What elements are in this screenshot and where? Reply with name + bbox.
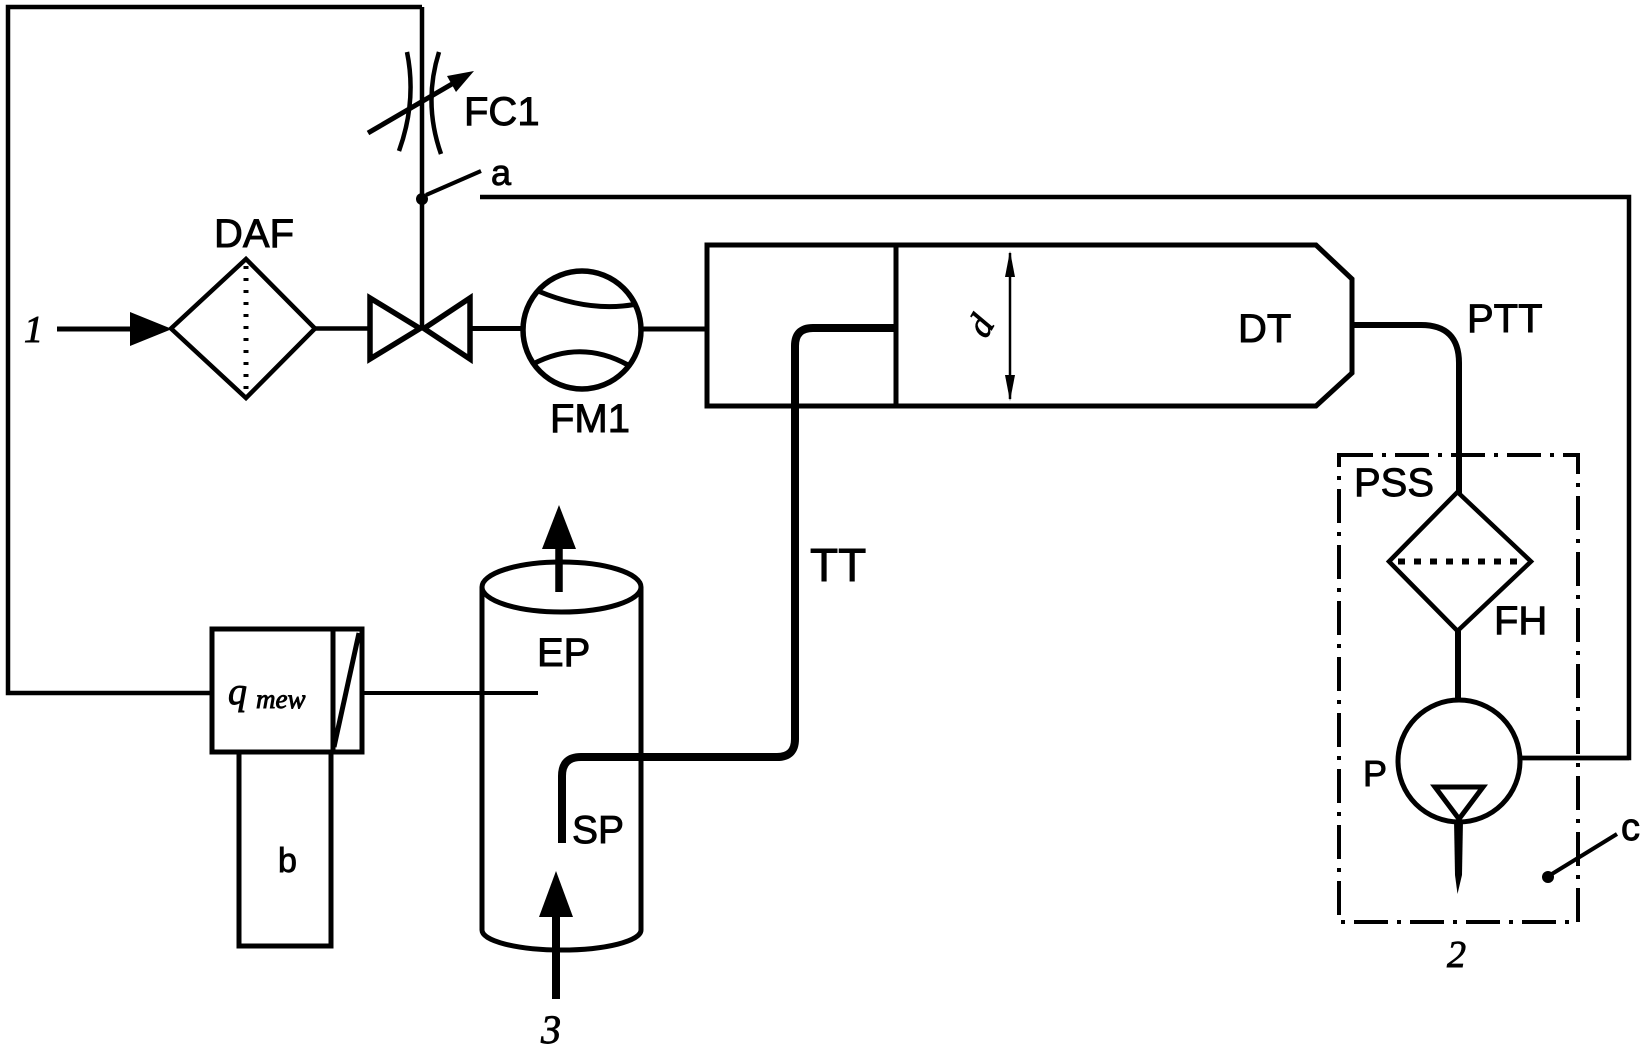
pump P outlet taper bbox=[1454, 820, 1463, 894]
wire inlet 1 bbox=[57, 327, 136, 332]
svg-text:c: c bbox=[1621, 807, 1640, 849]
pump P triangle bbox=[1435, 787, 1483, 819]
svg-text:a: a bbox=[491, 152, 512, 193]
svg-text:d: d bbox=[958, 307, 1002, 343]
box PSS (dash-dot) bbox=[1339, 455, 1578, 922]
svg-text:FH: FH bbox=[1494, 599, 1547, 643]
wire FM1 to tank DT bbox=[641, 327, 707, 332]
svg-text:SP: SP bbox=[572, 809, 624, 852]
tank DT outline bbox=[707, 245, 1352, 406]
svg-text:b: b bbox=[278, 842, 297, 880]
node a bbox=[416, 193, 428, 205]
filter DAF (diamond) bbox=[171, 259, 315, 398]
dotted divider of DAF bbox=[244, 266, 249, 392]
pipe TT (tank to sample point SP) bbox=[562, 328, 896, 843]
dimension d line bbox=[1009, 253, 1012, 399]
svg-text:DAF: DAF bbox=[214, 212, 294, 256]
svg-text:FC1: FC1 bbox=[464, 90, 540, 134]
svg-text:1: 1 bbox=[24, 309, 43, 351]
wire DAF to valve bbox=[315, 326, 370, 331]
arrow inlet 1 bbox=[130, 312, 172, 346]
svg-text:q: q bbox=[228, 671, 247, 713]
wire valve to FM1 bbox=[468, 326, 524, 331]
arrow EP vent (up) bbox=[542, 505, 576, 549]
filter FH (diamond) bbox=[1389, 492, 1531, 631]
svg-text:PSS: PSS bbox=[1354, 461, 1434, 505]
wire FC1 branch vertical bbox=[420, 7, 425, 330]
flow meter FM1 bbox=[523, 271, 641, 389]
box b bbox=[239, 752, 331, 946]
dotted divider of FH bbox=[1398, 559, 1522, 565]
arrow inlet 3 (up into EP) bbox=[539, 871, 573, 917]
svg-text:FM1: FM1 bbox=[550, 397, 630, 441]
wire DT outlet to PSS bbox=[1352, 325, 1459, 495]
wire pointer to a bbox=[426, 171, 481, 195]
wire net a (top horizontal, right vertical, to pump) bbox=[480, 197, 1629, 758]
wire outer frame (top-left loop) bbox=[8, 7, 422, 693]
valve FC1 (variable restrictor with arrow) bbox=[368, 52, 474, 154]
svg-text:DT: DT bbox=[1238, 307, 1291, 351]
valve (gate valve bowtie) bbox=[370, 298, 420, 359]
wire FH to pump P bbox=[1455, 631, 1461, 701]
svg-text:mew: mew bbox=[256, 684, 306, 714]
pointer to c bbox=[1547, 834, 1617, 877]
sensor q_mew box bbox=[212, 629, 362, 752]
vessel EP cylinder bbox=[480, 587, 485, 930]
dimension d arrowheads bbox=[1005, 251, 1015, 277]
svg-text:PTT: PTT bbox=[1467, 297, 1543, 341]
svg-text:3: 3 bbox=[540, 1007, 561, 1045]
wire q_mew to EP bbox=[362, 691, 538, 695]
wire pump to net a bbox=[1520, 756, 1629, 761]
svg-text:TT: TT bbox=[810, 539, 866, 591]
tank DT divider bbox=[894, 245, 899, 406]
svg-text:EP: EP bbox=[537, 631, 590, 675]
svg-text:2: 2 bbox=[1447, 934, 1466, 976]
pump P circle bbox=[1398, 700, 1520, 822]
svg-text:P: P bbox=[1363, 753, 1387, 794]
